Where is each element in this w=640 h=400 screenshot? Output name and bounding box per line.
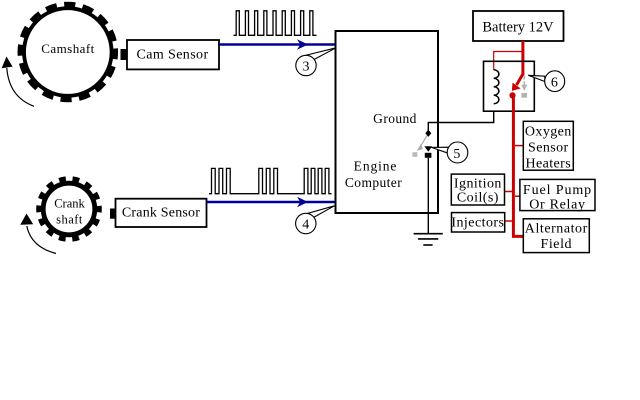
svg-text:Oxygen: Oxygen: [525, 124, 572, 139]
svg-text:Ground: Ground: [373, 111, 417, 126]
svg-text:Computer: Computer: [345, 175, 402, 190]
svg-text:Battery 12V: Battery 12V: [482, 20, 554, 36]
svg-text:Alternator: Alternator: [525, 221, 588, 236]
svg-text:4: 4: [302, 218, 309, 233]
svg-text:Crank Sensor: Crank Sensor: [122, 206, 200, 221]
svg-text:Heaters: Heaters: [526, 156, 572, 171]
svg-text:shaft: shaft: [56, 213, 83, 227]
svg-text:Camshaft: Camshaft: [41, 41, 94, 56]
svg-text:Sensor: Sensor: [528, 140, 569, 155]
svg-text:Coil(s): Coil(s): [457, 191, 499, 206]
svg-text:Engine: Engine: [354, 159, 398, 174]
svg-text:Injectors: Injectors: [451, 215, 504, 230]
svg-text:3: 3: [303, 60, 310, 75]
svg-text:Ignition: Ignition: [454, 176, 502, 191]
svg-text:5: 5: [453, 147, 460, 162]
svg-text:Crank: Crank: [54, 197, 85, 211]
svg-text:Cam Sensor: Cam Sensor: [136, 48, 208, 63]
svg-text:Or Relay: Or Relay: [529, 197, 586, 212]
svg-text:Field: Field: [541, 237, 573, 252]
svg-text:Fuel Pump: Fuel Pump: [523, 183, 592, 198]
svg-text:6: 6: [551, 76, 558, 91]
